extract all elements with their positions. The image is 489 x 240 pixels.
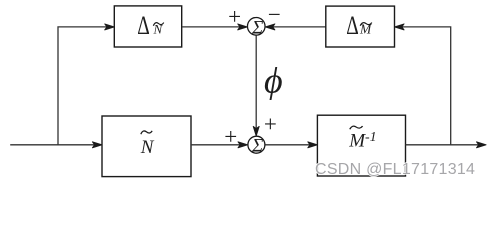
wire branch from input node up and right xyxy=(58,27,111,145)
svg-text:Σ: Σ xyxy=(251,136,263,157)
wire feedback from output node up and left xyxy=(398,27,450,145)
svg-text:+: + xyxy=(228,4,241,29)
label Delta_N~ xyxy=(137,11,164,39)
svg-text:+: + xyxy=(224,124,237,149)
svg-text:CSDN @FL17171314: CSDN @FL17171314 xyxy=(315,161,475,178)
block M~ inverse xyxy=(317,115,405,176)
arrowhead into N~ block xyxy=(92,142,102,148)
arrowhead into bottom sum left xyxy=(238,142,248,148)
svg-text:N: N xyxy=(140,137,155,158)
block Delta_N~ xyxy=(114,6,181,47)
arrowhead output xyxy=(477,142,487,148)
arrowhead into top sum left xyxy=(238,24,248,30)
svg-text:Δ: Δ xyxy=(346,11,359,39)
summing junction bottom xyxy=(248,136,265,153)
label Delta_M~ xyxy=(346,11,372,39)
arrowhead down into bottom sum xyxy=(253,126,259,136)
wire bottom sum to M inverse xyxy=(266,144,314,146)
wire Delta_M to top sum xyxy=(269,26,326,28)
arrowhead into top sum right xyxy=(265,24,275,30)
wire N~ to bottom sum xyxy=(191,144,244,146)
block Delta_M~ xyxy=(326,6,395,47)
svg-text:Σ: Σ xyxy=(251,17,263,38)
svg-text:−: − xyxy=(268,2,281,27)
summing junction top xyxy=(247,18,265,36)
svg-text:-1: -1 xyxy=(365,130,377,145)
wire Delta_N to top sum xyxy=(182,26,244,28)
wire output xyxy=(406,144,483,146)
svg-text:+: + xyxy=(264,112,277,137)
svg-text:Δ: Δ xyxy=(137,11,150,39)
arrowhead into M inverse block xyxy=(308,142,318,148)
wire phi vertical xyxy=(255,36,257,133)
label N~ xyxy=(140,131,155,158)
wire input horizontal xyxy=(10,144,99,146)
svg-text:M: M xyxy=(348,130,366,151)
block N~ xyxy=(102,116,191,177)
arrowhead into Delta_M right xyxy=(395,24,405,30)
arrowhead into Delta_N block xyxy=(105,24,115,30)
svg-text:ϕ: ϕ xyxy=(264,61,283,101)
label M~ inverse xyxy=(348,126,376,151)
